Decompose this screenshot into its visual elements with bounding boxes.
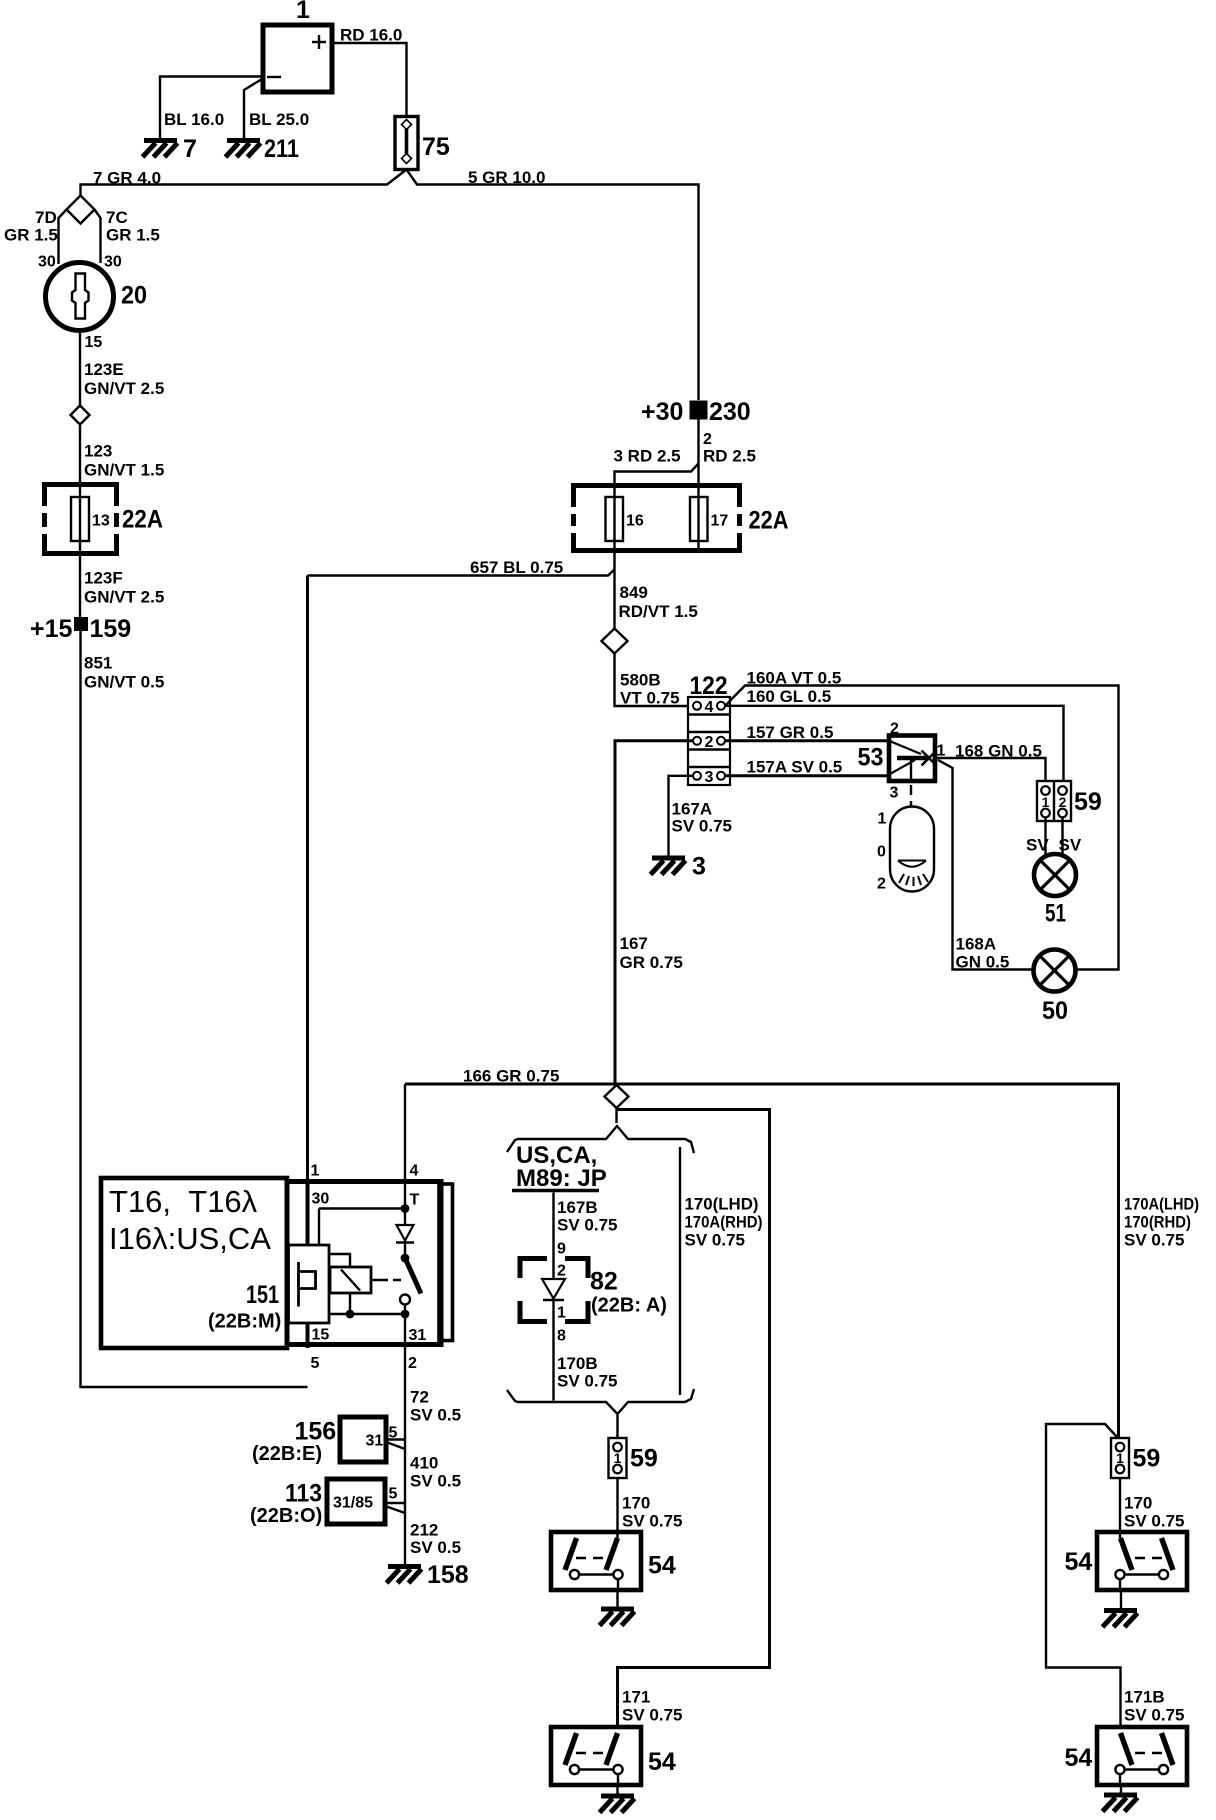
svg-text:54: 54 — [648, 1552, 676, 1580]
svg-text:170A(LHD): 170A(LHD) — [1124, 1195, 1199, 1214]
svg-text:170B: 170B — [557, 1354, 598, 1373]
svg-text:5 GR 10.0: 5 GR 10.0 — [468, 168, 546, 187]
svg-text:3 RD 2.5: 3 RD 2.5 — [614, 447, 681, 466]
svg-text:1: 1 — [1042, 794, 1050, 810]
wire BL 25.0 battery minus to ground 211 — [244, 79, 262, 138]
svg-text:158: 158 — [427, 1561, 469, 1589]
svg-text:+30: +30 — [641, 398, 683, 426]
relay diode — [397, 1225, 414, 1241]
wire 168A GN 0.5 — [938, 760, 1033, 970]
svg-text:2: 2 — [890, 721, 899, 738]
svg-text:1: 1 — [878, 811, 887, 828]
wire 160A VT 0.5 — [725, 686, 1119, 970]
svg-text:123E: 123E — [84, 360, 124, 379]
wire 167A SV 0.75 to ground 3 — [669, 776, 694, 856]
wire 580B VT 0.75 — [615, 654, 689, 707]
lamp 51 — [1034, 854, 1076, 896]
svg-text:7 GR 4.0: 7 GR 4.0 — [93, 169, 161, 188]
svg-text:SV 0.75: SV 0.75 — [1124, 1512, 1185, 1531]
wire 657 BL 0.75 — [308, 570, 615, 576]
component 113 — [250, 1479, 398, 1527]
svg-text:(22B:M): (22B:M) — [208, 1311, 281, 1333]
relay module box — [289, 1245, 330, 1323]
wire 168 GN 0.5 — [935, 758, 1046, 781]
relay mech link dashed — [371, 1279, 403, 1281]
svg-text:2: 2 — [408, 1355, 417, 1372]
svg-text:59: 59 — [1074, 788, 1102, 816]
svg-text:SV: SV — [1026, 836, 1049, 855]
svg-text:170: 170 — [1124, 1494, 1152, 1513]
svg-text:22A: 22A — [122, 506, 163, 534]
svg-text:5: 5 — [311, 1355, 320, 1372]
svg-text:151: 151 — [246, 1281, 279, 1309]
svg-text:9: 9 — [557, 1241, 566, 1258]
svg-text:167: 167 — [620, 934, 648, 953]
svg-text:53: 53 — [858, 744, 884, 772]
svg-text:113: 113 — [285, 1480, 322, 1508]
relay 151 label box — [101, 1178, 287, 1348]
svg-text:2: 2 — [877, 876, 886, 893]
svg-text:2: 2 — [705, 734, 714, 751]
svg-text:SV 0.75: SV 0.75 — [685, 1231, 746, 1250]
svg-text:GR 1.5: GR 1.5 — [4, 226, 58, 245]
ground 211 — [226, 141, 261, 158]
ignition switch 20 — [46, 263, 148, 331]
svg-text:230: 230 — [709, 398, 751, 426]
svg-text:3: 3 — [705, 769, 714, 786]
svg-text:7: 7 — [183, 135, 197, 163]
svg-text:3: 3 — [692, 853, 706, 881]
fuse box 22A left — [42, 482, 163, 556]
splice diamond — [602, 629, 628, 654]
relay coil — [330, 1267, 371, 1293]
svg-text:157 GR 0.5: 157 GR 0.5 — [747, 723, 834, 742]
node +15 159 — [30, 615, 131, 643]
svg-text:GN/VT 1.5: GN/VT 1.5 — [84, 461, 164, 480]
svg-text:212: 212 — [410, 1521, 438, 1540]
relay pin T internal — [404, 1184, 406, 1258]
wire 410 SV 0.5 — [404, 1440, 406, 1504]
variant braces — [507, 1126, 694, 1153]
svg-text:SV 0.75: SV 0.75 — [557, 1372, 618, 1391]
svg-text:849: 849 — [620, 583, 648, 602]
splice diamond — [67, 196, 95, 224]
door switch 54 right upper (mirrored) — [1097, 1532, 1187, 1590]
svg-text:123: 123 — [84, 442, 112, 461]
svg-text:170: 170 — [622, 1494, 650, 1513]
svg-text:T16, T16λ: T16, T16λ — [109, 1184, 258, 1219]
svg-text:657 BL 0.75: 657 BL 0.75 — [470, 558, 563, 577]
svg-text:54: 54 — [1065, 1548, 1093, 1576]
svg-text:122: 122 — [690, 672, 728, 700]
svg-text:54: 54 — [1065, 1744, 1093, 1772]
svg-text:+15: +15 — [30, 615, 73, 643]
door switch 54 middle lower — [551, 1727, 641, 1785]
svg-text:72: 72 — [410, 1388, 429, 1407]
svg-text:30: 30 — [104, 254, 122, 271]
svg-text:2: 2 — [557, 1263, 566, 1280]
wire 3 RD 2.5 branch — [615, 464, 699, 498]
wire junction 113 pin 5 — [385, 1502, 405, 1504]
wire 851 GN/VT 0.5 — [81, 631, 308, 1387]
svg-text:170(RHD): 170(RHD) — [1124, 1213, 1191, 1232]
diode 82 symbol — [542, 1279, 565, 1299]
svg-text:31/85: 31/85 — [333, 1495, 373, 1512]
svg-text:0: 0 — [877, 844, 886, 861]
wire 157 GR 0.5 — [725, 739, 889, 742]
svg-text:SV: SV — [1059, 836, 1082, 855]
wire 72 SV 0.5 — [404, 1348, 406, 1440]
svg-text:851: 851 — [84, 654, 112, 673]
svg-text:157A SV 0.5: 157A SV 0.5 — [747, 758, 843, 777]
svg-text:171B: 171B — [1124, 1688, 1165, 1707]
svg-text:SV 0.75: SV 0.75 — [557, 1216, 618, 1235]
svg-text:59: 59 — [1133, 1445, 1161, 1473]
wire 7D GR 1.5 — [59, 210, 67, 265]
wire 157A SV 0.5 — [725, 774, 889, 777]
svg-text:3: 3 — [890, 785, 899, 802]
wire junction 156 pin 5 — [386, 1438, 405, 1440]
wire to connector 59 middle — [616, 1414, 618, 1438]
fuse box 22A middle — [571, 483, 789, 553]
svg-text:22A: 22A — [749, 507, 789, 535]
svg-text:4: 4 — [705, 699, 714, 716]
svg-text:2: 2 — [703, 431, 712, 448]
connector 59 middle — [609, 1438, 627, 1478]
svg-text:50: 50 — [1042, 997, 1068, 1025]
ground 158 — [387, 1567, 422, 1584]
svg-text:59: 59 — [630, 1445, 658, 1473]
svg-text:5: 5 — [389, 1486, 398, 1503]
svg-text:1: 1 — [311, 1163, 320, 1180]
svg-text:GR 0.75: GR 0.75 — [620, 953, 683, 972]
diode 82 dashed box — [520, 1259, 667, 1322]
svg-text:GN/VT 2.5: GN/VT 2.5 — [84, 588, 164, 607]
ground 7 — [143, 141, 178, 158]
svg-text:1: 1 — [296, 0, 310, 24]
svg-text:410: 410 — [410, 1454, 438, 1473]
svg-text:GN/VT 0.5: GN/VT 0.5 — [84, 673, 164, 692]
svg-text:(22B:E): (22B:E) — [252, 1443, 322, 1465]
svg-text:167B: 167B — [557, 1198, 598, 1217]
fuse 13 — [71, 497, 89, 541]
svg-text:SV 0.75: SV 0.75 — [1124, 1231, 1185, 1250]
relay internal wires — [329, 1254, 350, 1267]
connector 59 right — [1111, 1438, 1129, 1478]
svg-text:2: 2 — [1059, 794, 1067, 810]
wires SV to lamp 51 — [1044, 818, 1046, 855]
svg-text:160 GL 0.5: 160 GL 0.5 — [747, 687, 832, 706]
svg-text:166 GR 0.75: 166 GR 0.75 — [463, 1067, 559, 1086]
relay pin 4 wire — [404, 1084, 406, 1184]
svg-text:580B: 580B — [620, 671, 661, 690]
svg-text:(22B: A): (22B: A) — [591, 1295, 667, 1317]
svg-text:54: 54 — [648, 1748, 676, 1776]
svg-text:7C: 7C — [106, 208, 128, 227]
wire 170 SV 0.75 middle — [616, 1478, 618, 1538]
svg-text:RD 2.5: RD 2.5 — [703, 447, 756, 466]
svg-text:31: 31 — [409, 1327, 427, 1344]
svg-text:4: 4 — [410, 1163, 419, 1180]
switch 53 — [858, 721, 946, 802]
splice diamond — [71, 406, 90, 425]
svg-text:GN/VT 2.5: GN/VT 2.5 — [84, 379, 164, 398]
wire 212 SV 0.5 — [404, 1503, 406, 1564]
svg-text:15: 15 — [85, 334, 103, 351]
svg-text:170A(RHD): 170A(RHD) — [685, 1213, 763, 1232]
svg-text:GN 0.5: GN 0.5 — [956, 953, 1010, 972]
wire RD 16.0 battery plus to fuse 75 — [332, 43, 407, 117]
svg-text:BL 16.0: BL 16.0 — [164, 110, 224, 129]
svg-text:7D: 7D — [35, 208, 57, 227]
svg-text:123F: 123F — [84, 569, 123, 588]
svg-text:SV 0.75: SV 0.75 — [622, 1512, 683, 1531]
ground under 54 — [616, 1590, 618, 1608]
relay 151 box — [287, 1163, 453, 1373]
svg-text:30: 30 — [312, 1191, 330, 1208]
ground 3 — [651, 858, 686, 875]
svg-text:82: 82 — [590, 1268, 618, 1296]
svg-text:156: 156 — [295, 1418, 337, 1446]
svg-text:SV 0.75: SV 0.75 — [622, 1706, 683, 1725]
svg-text:16: 16 — [626, 513, 644, 530]
right column branch at 59 — [1046, 1424, 1121, 1727]
wire 123 GN/VT 1.5 — [79, 424, 81, 498]
svg-text:M89: JP: M89: JP — [516, 1165, 607, 1192]
wire 167 GR 0.75 long — [615, 741, 693, 1084]
door switch 54 middle upper — [551, 1532, 641, 1590]
wire 167B SV 0.75 — [552, 1193, 554, 1401]
svg-text:159: 159 — [90, 615, 132, 643]
svg-text:17: 17 — [711, 513, 729, 530]
wire 170 SV 0.75 right — [1119, 1478, 1121, 1538]
wire 7C GR 1.5 — [95, 210, 101, 264]
node +30 230 — [641, 398, 751, 426]
wire 160 GL 0.5 — [725, 706, 1064, 781]
svg-text:8: 8 — [557, 1328, 566, 1345]
svg-text:160A VT 0.5: 160A VT 0.5 — [747, 669, 842, 688]
svg-text:VT 0.75: VT 0.75 — [620, 689, 680, 708]
wire into variant brace — [615, 1108, 617, 1123]
svg-text:211: 211 — [264, 135, 299, 163]
svg-text:SV 0.5: SV 0.5 — [410, 1472, 461, 1491]
svg-text:15: 15 — [312, 1327, 330, 1344]
svg-text:GR 1.5: GR 1.5 — [106, 226, 160, 245]
svg-text:RD 16.0: RD 16.0 — [340, 26, 402, 45]
fuse 75 — [395, 117, 450, 170]
svg-text:51: 51 — [1045, 900, 1066, 928]
svg-text:20: 20 — [121, 282, 147, 310]
svg-text:171: 171 — [622, 1688, 650, 1707]
wire to bypass right — [617, 1110, 770, 1728]
svg-text:SV 0.5: SV 0.5 — [410, 1538, 461, 1557]
component 156 — [252, 1417, 398, 1465]
svg-text:168A: 168A — [956, 935, 997, 954]
relay switch blade — [401, 1254, 410, 1263]
svg-text:13: 13 — [92, 513, 110, 530]
svg-text:168 GN 0.5: 168 GN 0.5 — [955, 742, 1042, 761]
svg-text:SV 0.75: SV 0.75 — [1124, 1706, 1185, 1725]
wire 123F GN/VT 2.5 — [79, 541, 81, 617]
wire 5 GR 10.0 — [407, 170, 699, 401]
switch 53 knob — [877, 807, 934, 893]
wire 2 RD 2.5 — [697, 420, 699, 498]
svg-text:SV 0.75: SV 0.75 — [672, 817, 733, 836]
wire 849 RD/VT 1.5 — [613, 541, 615, 629]
battery 1 — [263, 0, 332, 92]
door switch 54 right lower (mirrored) — [1097, 1727, 1187, 1785]
svg-text:1: 1 — [557, 1305, 566, 1322]
svg-text:75: 75 — [422, 133, 450, 161]
svg-text:T: T — [410, 1192, 420, 1209]
switch 53 knob link dashed — [910, 760, 912, 781]
svg-text:30: 30 — [38, 254, 56, 271]
svg-text:SV 0.5: SV 0.5 — [410, 1406, 461, 1425]
svg-text:I16λ:US,CA: I16λ:US,CA — [109, 1221, 271, 1256]
wire 123E GN/VT 2.5 — [79, 331, 81, 408]
fuse 16 — [606, 497, 624, 541]
svg-text:170(LHD): 170(LHD) — [685, 1195, 759, 1214]
svg-text:(22B:O): (22B:O) — [250, 1505, 322, 1527]
wire BL 16.0 battery minus to ground 7 — [160, 77, 263, 139]
svg-text:RD/VT 1.5: RD/VT 1.5 — [619, 602, 698, 621]
svg-text:BL 25.0: BL 25.0 — [249, 110, 309, 129]
connector 122 — [688, 672, 730, 786]
splice diamond — [605, 1085, 629, 1108]
svg-text:31: 31 — [366, 1433, 384, 1450]
wire 166 GR 0.75 — [405, 1084, 1119, 1438]
connector 59 two pole — [1037, 781, 1102, 821]
fuse 17 — [690, 497, 708, 541]
lamp 50 — [1034, 950, 1076, 992]
wire 7 GR 4.0 — [81, 170, 407, 196]
